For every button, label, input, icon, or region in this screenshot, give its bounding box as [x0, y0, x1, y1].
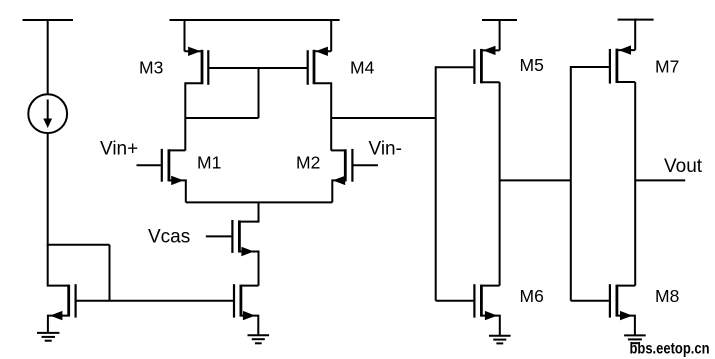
- wire (first stage output to second stage gates): [331, 117, 436, 119]
- transistor M3 (PMOS, diode-connected): [185, 19, 209, 151]
- wire (M7/M8 drain bus): [634, 82, 636, 286]
- current source I1: [28, 94, 67, 133]
- ground (M8): [624, 335, 646, 343]
- transistor M8 (NMOS, output stage): [571, 284, 635, 335]
- svg-text:Vin+: Vin+: [100, 139, 138, 160]
- wire (VDD tee to current source): [47, 19, 49, 94]
- wire (M5/M6 drain bus): [499, 82, 501, 285]
- svg-text:M2: M2: [296, 153, 320, 173]
- VDD tee (bias branch): [23, 19, 74, 21]
- ground (tail): [248, 335, 270, 343]
- wire (Vout tap): [635, 179, 685, 181]
- svg-text:M3: M3: [139, 58, 163, 78]
- transistor M4 (PMOS mirror): [308, 19, 332, 151]
- wire (M3 gate to M4 gate): [209, 67, 307, 69]
- VDD rail (M3/M4): [170, 19, 340, 21]
- transistor M5 (PMOS, second stage): [474, 19, 499, 84]
- wire (M5/M6 gate bus): [435, 66, 437, 300]
- wire (M5 gate lead): [436, 66, 474, 68]
- wire (mirror diode connect vertical): [109, 245, 111, 301]
- wire (current source to mirror drain node): [47, 133, 49, 246]
- VDD tee (M7): [618, 19, 654, 21]
- VDD tee (M5): [482, 19, 517, 21]
- svg-text:M6: M6: [520, 286, 544, 306]
- ground (M6): [489, 336, 511, 344]
- svg-text:M7: M7: [655, 57, 679, 77]
- wire (mirror diode connect horizontal): [47, 244, 110, 246]
- svg-text:Vout: Vout: [664, 156, 703, 177]
- transistor M7 (PMOS, output stage): [610, 19, 635, 84]
- transistor M6 (NMOS, second stage): [436, 284, 500, 335]
- ground (bias mirror): [37, 333, 59, 341]
- wire (M1/M2 common source): [186, 201, 332, 203]
- transistor tail NMOS (current mirror output): [234, 284, 259, 335]
- wire (mirror gate bus to tail transistor): [76, 300, 233, 302]
- svg-text:bbs.eetop.cn: bbs.eetop.cn: [630, 340, 710, 357]
- wire (M3 diode connect vertical to gates): [258, 67, 260, 118]
- svg-text:M1: M1: [197, 153, 221, 173]
- svg-text:Vcas: Vcas: [148, 227, 190, 248]
- wire (second stage mid node to M7/M8 gates): [500, 179, 571, 181]
- transistor Vcas cascode NMOS: [206, 202, 259, 285]
- transistor M2 (NMOS input): [331, 149, 378, 203]
- svg-text:M4: M4: [350, 58, 375, 78]
- wire (M7/M8 gate bus): [570, 66, 572, 301]
- svg-text:Vin-: Vin-: [369, 139, 402, 160]
- transistor M1 (NMOS input): [137, 149, 186, 203]
- wire (M7 gate lead): [571, 66, 609, 68]
- svg-text:M8: M8: [655, 286, 679, 306]
- transistor bias mirror NMOS (left, diode-connected): [48, 245, 76, 333]
- svg-text:M5: M5: [520, 55, 544, 75]
- wire (M3 diode connect horizontal): [185, 117, 258, 119]
